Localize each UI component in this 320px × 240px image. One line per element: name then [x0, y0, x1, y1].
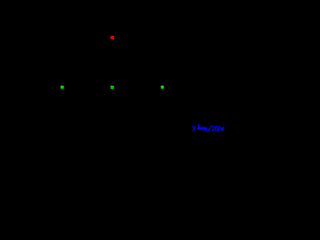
red particle (top center): [111, 36, 114, 39]
blue signature text bottom-right: [192, 122, 225, 134]
digit 0: [216, 127, 218, 131]
digit 1: [217, 127, 220, 131]
sprites layer: [0, 0, 225, 135]
green particle left: [61, 86, 64, 89]
word descender tail: [205, 129, 206, 132]
slash: [208, 126, 211, 131]
digit 2: [213, 126, 215, 130]
green particle right: [161, 86, 164, 89]
green particle middle: [111, 86, 114, 89]
X: [193, 126, 195, 130]
word ascender: [197, 125, 200, 130]
word body bar: [198, 128, 207, 129]
digit 5/W blob: [221, 127, 224, 131]
